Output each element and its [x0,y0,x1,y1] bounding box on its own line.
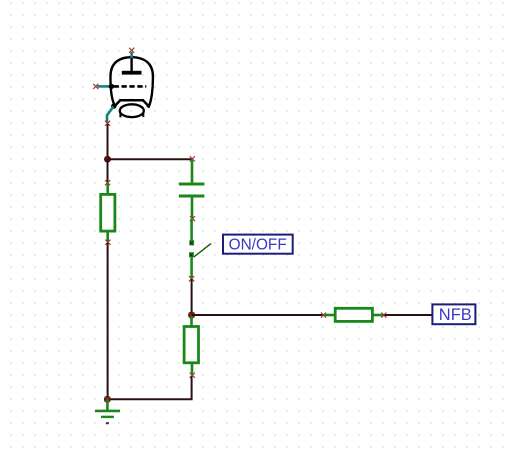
pin marker x capacitor top [190,156,195,161]
vacuum tube V1 envelope [110,57,152,108]
tube grid (dashed) [114,85,147,88]
svg-text:ON/OFF: ON/OFF [229,236,287,253]
tube heater ellipse [120,104,144,117]
tube anode plate [122,58,142,75]
svg-text:NFB: NFB [439,306,472,324]
label ON/OFF [223,235,293,254]
tube cathode pin (teal) [107,107,114,124]
resistor R1 [101,183,115,242]
pin marker x R1 bottom [105,240,110,245]
wire R3 to NFB [385,314,433,316]
node A junction [104,156,111,163]
capacitor C1 [179,160,205,219]
pin marker x R3 right [381,313,386,318]
wire cathode to node A [107,124,109,159]
pin marker x grid [93,84,98,89]
pin marker x R1 top [105,180,110,185]
switch S1 [189,219,211,278]
wire node B to R3 [192,314,324,316]
tube anode pin (teal) [130,52,133,58]
label NFB [432,304,475,324]
ground [95,399,120,423]
pin marker x switch bottom [189,276,194,281]
node B junction [188,312,195,319]
pin marker x R3 left [321,313,326,318]
tube grid pin (teal) [97,84,114,89]
wire switch to node B [191,279,193,315]
tube cathode [111,100,148,109]
wire node A to capacitor [108,158,193,160]
ground node junction [104,396,111,403]
pin marker x capacitor bottom [190,216,195,221]
wire R2 to ground run [107,376,191,399]
wire node A to R1 [107,159,109,183]
pin marker x R2 bottom [190,373,195,378]
resistor R2 [184,316,198,375]
resistor R3 [324,308,384,321]
pin marker x anode [129,48,134,53]
pin marker x cathode [105,121,110,126]
wire R1 to ground node [107,243,109,399]
